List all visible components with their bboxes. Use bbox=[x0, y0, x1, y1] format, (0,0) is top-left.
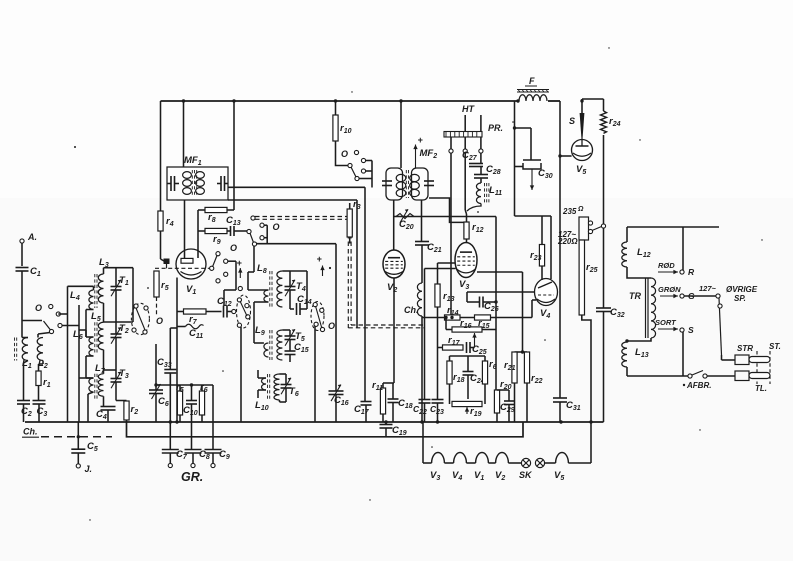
capacitor C19 bbox=[380, 422, 407, 437]
rotary switch bbox=[237, 286, 251, 328]
capacitor C30 bbox=[523, 128, 553, 190]
svg-text:SK: SK bbox=[519, 470, 533, 480]
label L3 bbox=[99, 257, 109, 269]
resistor r10 bbox=[333, 115, 352, 141]
terminal J bbox=[76, 464, 92, 474]
wire bbox=[515, 101, 532, 216]
resistor r19 bbox=[452, 401, 482, 418]
wire rail bbox=[78, 305, 80, 422]
resistor r8 bbox=[205, 207, 234, 224]
wire right rail bbox=[582, 99, 604, 422]
wire bus bbox=[422, 317, 532, 319]
wire bbox=[371, 161, 373, 188]
terminal S bbox=[680, 325, 694, 335]
capacitor C20 bbox=[396, 209, 414, 231]
capacitor C29 bbox=[497, 390, 515, 422]
inductor L12 bbox=[622, 227, 651, 267]
wire bbox=[228, 200, 357, 328]
label ST. bbox=[769, 342, 781, 351]
wire bbox=[68, 286, 94, 337]
capacitor C1 bbox=[16, 266, 41, 278]
lamp bbox=[535, 458, 544, 467]
capacitor C17 bbox=[354, 402, 372, 423]
resistor r6 bbox=[199, 382, 207, 422]
svg-text:235: 235 bbox=[562, 207, 577, 216]
resistor r11 bbox=[372, 380, 386, 422]
rotary switch bbox=[311, 302, 335, 332]
svg-text:Ω: Ω bbox=[577, 206, 584, 213]
wire bbox=[627, 226, 719, 228]
switch O bbox=[213, 243, 238, 283]
capacitor C5 bbox=[71, 441, 98, 453]
capacitor C3 bbox=[33, 401, 48, 419]
wire bbox=[383, 278, 394, 383]
resistor r7 bbox=[177, 309, 206, 326]
wire bbox=[248, 246, 254, 272]
wire bbox=[450, 384, 486, 404]
wire grid V4 bbox=[467, 291, 535, 293]
chassis dashed line bbox=[41, 435, 112, 438]
wire bbox=[335, 101, 337, 115]
wire bbox=[477, 272, 523, 352]
trimmer T6 bbox=[280, 374, 299, 402]
svg-text:PR.: PR. bbox=[488, 123, 503, 133]
label GR. bbox=[181, 470, 203, 484]
tap SORT bbox=[655, 318, 678, 331]
resistor r4 bbox=[158, 211, 174, 231]
svg-text:O: O bbox=[341, 149, 348, 159]
wire bbox=[24, 361, 29, 401]
varistor C11 bbox=[177, 324, 204, 340]
inductor L4 bbox=[70, 290, 94, 310]
resistor r9 bbox=[205, 228, 227, 246]
svg-text:GRØN: GRØN bbox=[658, 285, 681, 294]
svg-text:TL.: TL. bbox=[755, 384, 767, 393]
wire bbox=[79, 330, 94, 378]
resistor r20a bbox=[482, 359, 496, 384]
wire bbox=[248, 271, 307, 302]
wire bbox=[161, 231, 165, 261]
tube V5 bbox=[572, 140, 593, 177]
svg-text:F: F bbox=[529, 76, 535, 86]
resistor r25 bbox=[579, 240, 597, 315]
terminal bbox=[168, 453, 172, 468]
svg-text:ØVRIGE: ØVRIGE bbox=[726, 285, 758, 294]
capacitor C8 bbox=[185, 449, 210, 461]
wire bbox=[314, 326, 316, 422]
wire bbox=[421, 316, 423, 422]
inductor L13 bbox=[622, 341, 649, 376]
wire grid line bbox=[394, 200, 496, 217]
svg-text:RØD: RØD bbox=[658, 261, 675, 270]
label 127~ bbox=[699, 284, 717, 293]
terminal switch bbox=[716, 294, 722, 355]
wire bbox=[58, 286, 79, 422]
labels heaters bbox=[430, 470, 564, 482]
inductor L10 bbox=[255, 374, 280, 412]
tube V2 bbox=[383, 250, 405, 294]
wire bbox=[627, 267, 651, 278]
heater chain bbox=[423, 422, 591, 463]
plug PR bbox=[444, 123, 503, 137]
wire bbox=[258, 370, 266, 398]
wire top HT bus bbox=[161, 100, 561, 102]
arrow + bbox=[237, 258, 243, 278]
capacitor C25 bbox=[463, 342, 487, 356]
wire bbox=[532, 300, 536, 318]
inductor L3 bbox=[95, 268, 104, 323]
wire bbox=[421, 245, 423, 283]
tap GREEN bbox=[658, 285, 681, 298]
wire bbox=[465, 153, 466, 222]
capacitor C2 bbox=[17, 401, 32, 419]
tube V3 bbox=[455, 243, 477, 292]
wire bbox=[429, 198, 464, 222]
wire bbox=[421, 200, 423, 242]
wire bbox=[393, 217, 395, 251]
svg-text:O: O bbox=[273, 222, 280, 232]
resistor r1 bbox=[36, 361, 51, 401]
wire bbox=[467, 204, 481, 212]
inductor L11 bbox=[476, 178, 502, 204]
wire bbox=[684, 295, 716, 297]
wire bbox=[465, 115, 481, 131]
label OVRIGE bbox=[726, 285, 758, 303]
capacitor C23 bbox=[430, 318, 444, 423]
resistor r12 bbox=[464, 222, 484, 243]
wire bbox=[627, 338, 651, 341]
wire bbox=[254, 330, 290, 343]
resistor r17 bbox=[438, 335, 464, 350]
trimmer T3 bbox=[111, 368, 129, 401]
wire box bbox=[450, 356, 486, 372]
inductor L2 bbox=[37, 338, 48, 371]
svg-text:AFBR.: AFBR. bbox=[686, 381, 711, 390]
wire bbox=[22, 337, 28, 339]
wire bbox=[233, 101, 235, 210]
switch AFBR bbox=[627, 371, 735, 391]
svg-text:SP.: SP. bbox=[734, 294, 746, 303]
wire bbox=[176, 278, 178, 423]
trimmer T4 bbox=[285, 271, 306, 309]
resistor r16 bbox=[452, 318, 482, 332]
terminal R bbox=[680, 227, 695, 277]
trimmer T2 bbox=[111, 322, 129, 370]
switch O bbox=[247, 222, 280, 246]
svg-text:O: O bbox=[328, 321, 335, 331]
wire bbox=[495, 217, 497, 391]
inductor L1 bbox=[15, 338, 32, 371]
terminal bbox=[479, 137, 483, 153]
inductor L6 bbox=[73, 322, 104, 374]
arrow + bbox=[413, 135, 423, 168]
capacitor C27 bbox=[462, 150, 483, 167]
svg-text:+: + bbox=[237, 258, 243, 268]
shield dashed box bbox=[251, 216, 424, 328]
wire bbox=[77, 453, 79, 464]
capacitor C15 bbox=[285, 340, 309, 363]
wire grid dashed bbox=[155, 266, 214, 270]
wire bbox=[722, 355, 736, 360]
inductor L7 bbox=[89, 363, 106, 400]
capacitor C10 bbox=[183, 385, 198, 417]
capacitor C24 bbox=[463, 372, 485, 400]
svg-text:STR: STR bbox=[737, 344, 753, 353]
label L5 bbox=[91, 311, 101, 323]
capacitor C18 bbox=[388, 383, 413, 422]
svg-text:ST.: ST. bbox=[769, 342, 781, 351]
tube V4 bbox=[535, 279, 558, 321]
tube V1 bbox=[176, 249, 206, 296]
terminal bbox=[191, 453, 195, 468]
arrow bbox=[470, 333, 477, 348]
resistor r5 bbox=[176, 382, 184, 422]
wire bbox=[446, 318, 452, 330]
resistor r23 bbox=[530, 216, 545, 280]
wire bbox=[336, 141, 349, 166]
capacitor C9 bbox=[205, 449, 230, 461]
resistor r15 bbox=[475, 315, 491, 330]
rotary switch bbox=[131, 303, 163, 334]
wire bbox=[160, 101, 162, 211]
node Ch. bbox=[22, 427, 39, 438]
capacitor C26 bbox=[467, 297, 499, 314]
terminal bbox=[211, 453, 215, 468]
wire bbox=[198, 210, 205, 231]
wire rail bbox=[104, 268, 134, 322]
wire bbox=[257, 244, 337, 391]
wire bbox=[156, 384, 213, 386]
terminal bbox=[449, 137, 453, 153]
choke Ch bbox=[404, 283, 422, 316]
wire bbox=[466, 292, 468, 302]
capacitor C6 bbox=[149, 344, 169, 422]
wire plate bbox=[515, 216, 552, 279]
line filter F bbox=[517, 76, 549, 101]
wire bbox=[22, 321, 50, 338]
svg-text:HT: HT bbox=[462, 104, 475, 114]
wire bbox=[169, 373, 171, 450]
wire bbox=[515, 166, 524, 168]
resistor r20 bbox=[494, 379, 511, 422]
wire bbox=[184, 200, 186, 258]
svg-text:SORT: SORT bbox=[655, 318, 677, 327]
wire bbox=[425, 269, 456, 400]
plug TL bbox=[735, 371, 767, 393]
transformer MF2 bbox=[382, 148, 437, 200]
trimmer T1 bbox=[111, 268, 129, 322]
capacitor C14 bbox=[290, 271, 312, 315]
terminal G bbox=[680, 291, 695, 301]
wire bbox=[559, 101, 561, 398]
resistor r18 bbox=[447, 361, 465, 384]
wire bbox=[240, 327, 242, 422]
resistor r2 bbox=[124, 401, 138, 422]
node grid blob bbox=[164, 259, 170, 269]
switch O bbox=[341, 149, 372, 181]
wire bbox=[22, 271, 42, 321]
wire rail bbox=[248, 272, 254, 343]
inductor L8 bbox=[257, 263, 282, 307]
wire bbox=[24, 404, 40, 422]
specks bbox=[74, 47, 763, 520]
tap RED bbox=[658, 261, 678, 274]
svg-text:O: O bbox=[35, 303, 42, 313]
jack ST dashed bbox=[749, 351, 770, 384]
transformer TR bbox=[629, 278, 656, 338]
arrow + bbox=[317, 254, 325, 276]
svg-text:Ch.: Ch. bbox=[23, 427, 38, 437]
capacitor C13 bbox=[226, 215, 247, 236]
resistor r24 bbox=[601, 111, 621, 133]
wire bbox=[264, 225, 267, 244]
wire bottom ground bus bbox=[25, 421, 604, 423]
capacitor C31 bbox=[553, 398, 581, 422]
wire bbox=[183, 101, 185, 167]
svg-text:220Ω: 220Ω bbox=[557, 237, 578, 246]
terminal A bbox=[20, 232, 37, 243]
svg-text:Ch.: Ch. bbox=[404, 305, 419, 315]
lamp bbox=[521, 458, 530, 467]
wire bbox=[224, 261, 236, 305]
svg-text:+: + bbox=[317, 254, 323, 264]
resistor r5 bbox=[154, 271, 169, 316]
wire bbox=[170, 328, 177, 370]
svg-text:A.: A. bbox=[27, 232, 37, 242]
transformer MF1 bbox=[167, 155, 228, 200]
plug STR bbox=[735, 344, 753, 365]
wire bbox=[515, 351, 528, 353]
svg-text:GR.: GR. bbox=[181, 470, 203, 484]
wire bbox=[682, 332, 684, 376]
wire bbox=[482, 329, 496, 331]
svg-text:S: S bbox=[688, 325, 694, 335]
wire bbox=[438, 263, 456, 284]
svg-text:R: R bbox=[688, 267, 695, 277]
wire bbox=[197, 231, 199, 258]
svg-text:J.: J. bbox=[85, 464, 93, 474]
resistor r3 bbox=[347, 199, 361, 244]
capacitor C28 bbox=[474, 164, 501, 178]
capacitor C33 bbox=[157, 357, 176, 385]
capacitor C12 bbox=[206, 296, 236, 318]
capacitor C16 bbox=[329, 385, 349, 422]
wire bbox=[228, 187, 365, 401]
wire bbox=[560, 155, 572, 157]
capacitor C22 bbox=[413, 400, 431, 423]
resistor r14 bbox=[445, 305, 461, 320]
label HT bbox=[462, 104, 475, 114]
wire chassis bus bbox=[127, 422, 524, 437]
wire bbox=[77, 422, 79, 449]
wire bbox=[21, 243, 23, 266]
fuse S bbox=[569, 99, 584, 140]
resistor r22 bbox=[524, 352, 542, 422]
inductor L9 bbox=[255, 325, 282, 360]
wire bbox=[400, 101, 402, 168]
svg-text:O: O bbox=[230, 243, 237, 253]
capacitor C21 bbox=[415, 242, 442, 255]
wire bbox=[212, 385, 214, 450]
svg-text:127~: 127~ bbox=[699, 284, 717, 293]
svg-text:+: + bbox=[418, 135, 424, 145]
wire bbox=[582, 315, 591, 422]
svg-text:S: S bbox=[569, 116, 575, 126]
wire bbox=[79, 370, 116, 422]
resistor r21 bbox=[504, 352, 517, 422]
capacitor C4 bbox=[96, 396, 116, 422]
wire bbox=[450, 153, 452, 318]
resistor r13 bbox=[435, 284, 455, 318]
selector bbox=[557, 206, 606, 246]
band switch O bbox=[35, 303, 62, 334]
terminal bbox=[463, 137, 467, 153]
svg-text:O: O bbox=[156, 316, 163, 326]
svg-text:TR: TR bbox=[629, 291, 641, 301]
capacitor C32 bbox=[596, 307, 625, 319]
capacitor C7 bbox=[162, 449, 188, 461]
trimmer T5 bbox=[285, 329, 305, 346]
wire bbox=[191, 404, 193, 450]
